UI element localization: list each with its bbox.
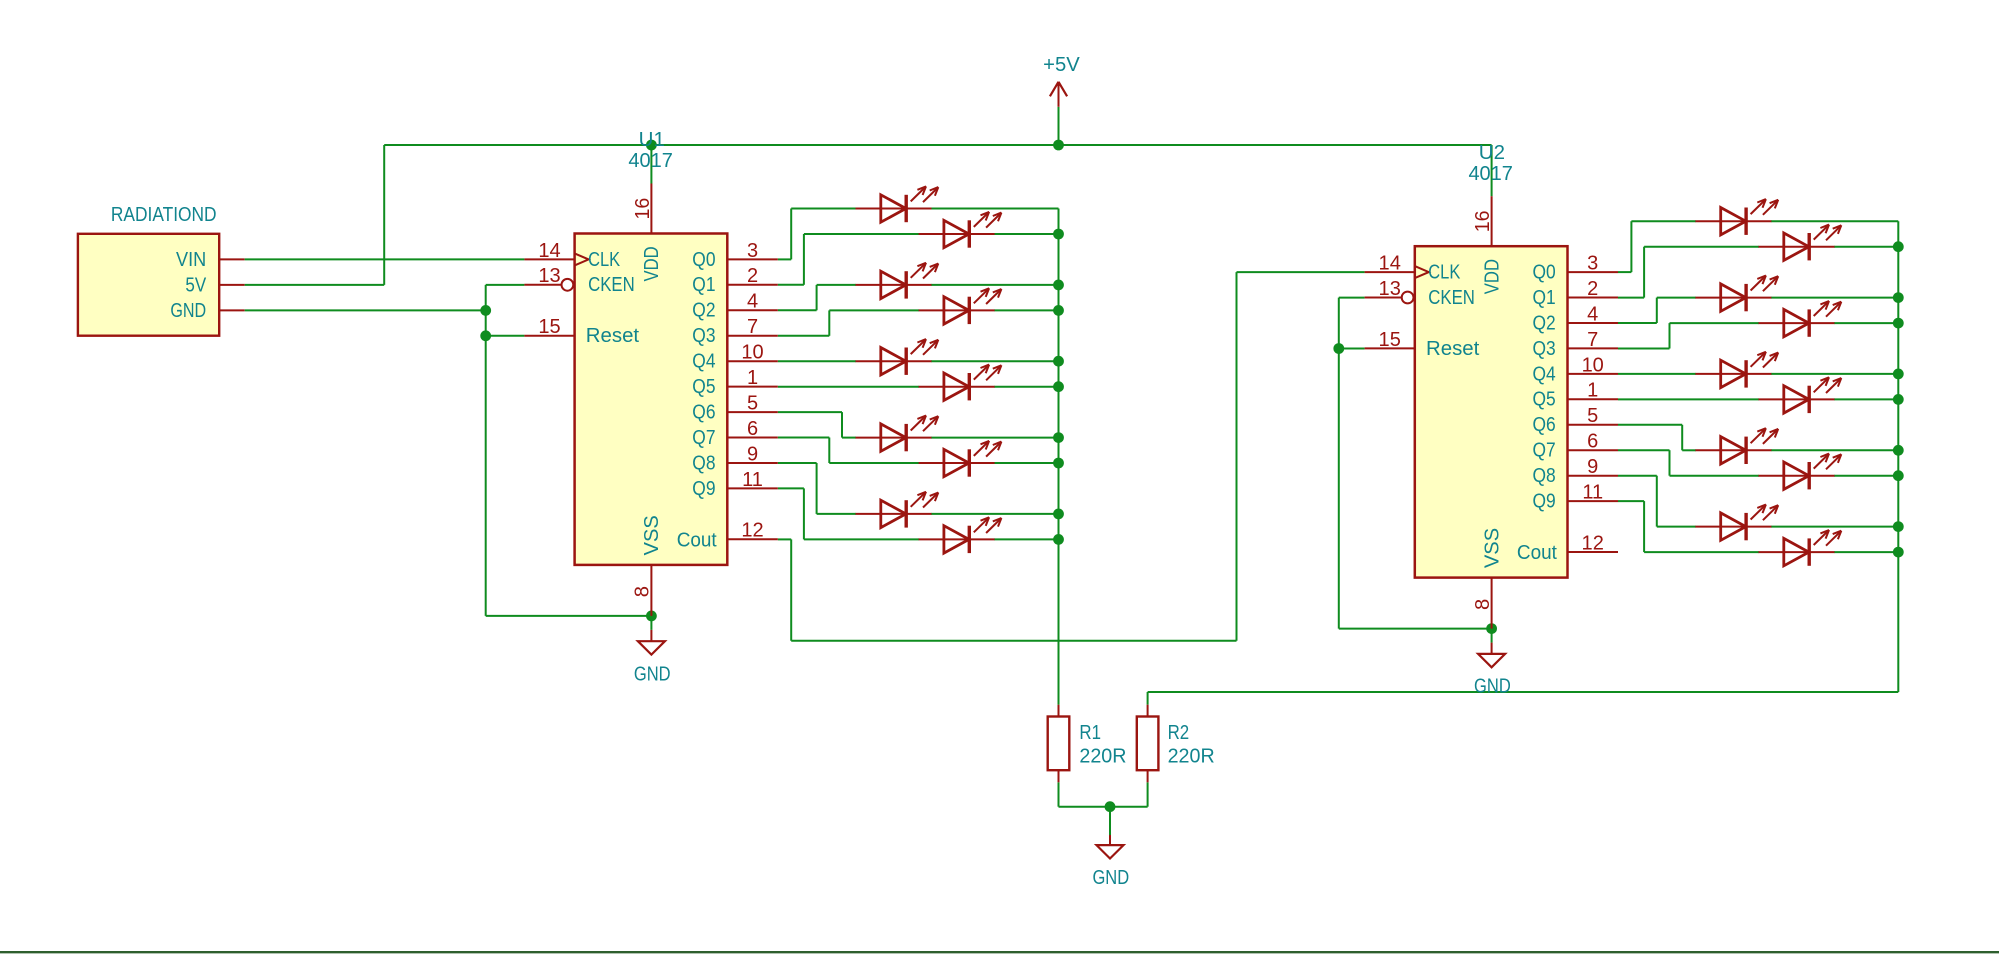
svg-text:U1: U1	[639, 129, 665, 151]
U1 pin 14 CLK	[524, 240, 620, 271]
svg-text:RADIATIOND: RADIATIOND	[111, 204, 217, 226]
wire	[1618, 348, 1670, 350]
wire	[1834, 246, 1898, 248]
svg-text:220R: 220R	[1168, 745, 1215, 767]
wire	[994, 309, 1058, 311]
junction	[1053, 458, 1064, 469]
junction	[1893, 394, 1904, 405]
wire	[931, 513, 1059, 515]
svg-text:5: 5	[747, 393, 758, 415]
wire	[1656, 298, 1658, 323]
svg-text:Q8: Q8	[692, 452, 715, 474]
wire	[790, 209, 792, 260]
U2 pin 3 Q0	[1533, 253, 1619, 284]
U2 pin 5 Q6	[1533, 405, 1619, 436]
LED	[856, 263, 939, 299]
junction	[1893, 547, 1904, 558]
wire	[1834, 475, 1898, 477]
wire	[1236, 272, 1238, 641]
svg-text:Q6: Q6	[692, 402, 715, 424]
svg-text:Q1: Q1	[692, 274, 715, 296]
svg-text:Q6: Q6	[1533, 414, 1556, 436]
wire	[803, 234, 805, 285]
U1 pin 1 Q5	[692, 367, 778, 398]
svg-text:Cout: Cout	[1517, 542, 1557, 564]
svg-text:Reset: Reset	[586, 325, 640, 347]
svg-text:VSS: VSS	[641, 515, 663, 555]
wire	[1681, 425, 1683, 451]
junction	[1053, 432, 1064, 443]
wire	[828, 310, 830, 335]
wire	[1657, 526, 1696, 528]
svg-text:Q7: Q7	[1533, 440, 1556, 462]
svg-text:VDD: VDD	[1481, 259, 1503, 294]
svg-text:3: 3	[747, 240, 758, 262]
svg-text:CKEN: CKEN	[1428, 287, 1475, 309]
wire	[816, 463, 818, 514]
wire	[485, 285, 487, 616]
U1 reference	[628, 129, 673, 172]
U1 pin 16 VDD	[632, 184, 663, 282]
LED	[1695, 276, 1778, 312]
wire	[931, 360, 1059, 362]
wire	[1491, 145, 1493, 196]
IC U1 4017 body	[575, 234, 728, 565]
svg-text:VDD: VDD	[641, 246, 663, 281]
svg-text:Q9: Q9	[692, 478, 715, 500]
svg-text:Q3: Q3	[1533, 338, 1556, 360]
wire	[778, 309, 817, 311]
U1 pin 6 Q7	[692, 418, 778, 449]
wire	[791, 640, 1236, 642]
U1 pin 9 Q8	[692, 443, 778, 474]
wire	[486, 615, 652, 617]
svg-text:CLK: CLK	[1428, 262, 1461, 284]
svg-text:VSS: VSS	[1481, 528, 1503, 568]
wire	[1618, 373, 1696, 375]
wire	[1631, 220, 1696, 222]
wire	[778, 462, 817, 464]
svg-text:15: 15	[1379, 329, 1401, 351]
svg-text:5V: 5V	[185, 274, 206, 296]
svg-text:14: 14	[1379, 253, 1401, 275]
junction	[480, 330, 491, 341]
svg-text:220R: 220R	[1079, 745, 1126, 767]
resistor R1	[1048, 705, 1127, 783]
svg-text:7: 7	[1587, 329, 1598, 351]
svg-text:Q8: Q8	[1533, 465, 1556, 487]
wire	[931, 437, 1059, 439]
svg-text:16: 16	[1472, 210, 1494, 232]
wire	[994, 386, 1058, 388]
LED	[919, 212, 1002, 248]
svg-text:3: 3	[1587, 253, 1598, 275]
U2 pin 11 Q9	[1533, 482, 1619, 513]
U2 pin 13 CKEN	[1365, 278, 1475, 309]
U2 pin 6 Q7	[1533, 431, 1619, 462]
svg-text:Q0: Q0	[692, 249, 715, 271]
svg-text:GND: GND	[1474, 675, 1511, 697]
wire	[778, 386, 919, 388]
junction	[1893, 369, 1904, 380]
U1 pin 8 VSS	[632, 515, 664, 616]
junction	[1893, 318, 1904, 329]
svg-text:Q4: Q4	[692, 351, 715, 373]
junction	[1893, 521, 1904, 532]
junction	[646, 611, 657, 622]
junction	[1486, 623, 1497, 634]
LED	[919, 365, 1002, 401]
wire	[1618, 449, 1670, 451]
wire	[994, 233, 1058, 235]
wire	[1109, 807, 1111, 835]
svg-text:Q1: Q1	[1533, 287, 1556, 309]
junction	[1053, 534, 1064, 545]
LED	[1759, 301, 1842, 337]
svg-text:Reset: Reset	[1426, 338, 1480, 360]
wire	[829, 462, 919, 464]
RADIATIOND pin 5V	[185, 274, 244, 296]
wire	[829, 309, 919, 311]
U2 pin 7 Q3	[1533, 329, 1619, 360]
wire	[994, 462, 1058, 464]
LED	[856, 186, 939, 222]
wire	[1630, 221, 1632, 272]
junction	[1333, 343, 1344, 354]
wire LED rail U2	[1897, 221, 1899, 692]
svg-text:Q7: Q7	[692, 427, 715, 449]
svg-text:GND: GND	[1092, 867, 1129, 889]
wire	[1237, 271, 1365, 273]
svg-text:Q9: Q9	[1533, 491, 1556, 513]
LED	[1695, 428, 1778, 464]
ground	[1092, 807, 1129, 889]
U2 pin 4 Q2	[1533, 303, 1619, 334]
wire	[1834, 322, 1898, 324]
svg-text:8: 8	[1472, 599, 1494, 610]
U2 reference	[1468, 142, 1513, 185]
wire	[778, 335, 830, 337]
sheet border bottom edge	[0, 951, 1999, 953]
U1 pin 11 Q9	[692, 469, 778, 500]
wire	[1338, 298, 1340, 629]
LED	[1695, 505, 1778, 541]
wire	[1058, 107, 1060, 145]
U1 pin 13 CKEN	[524, 265, 634, 296]
svg-text:10: 10	[741, 342, 763, 364]
svg-text:10: 10	[1582, 354, 1604, 376]
wire	[245, 284, 385, 286]
junction	[1893, 445, 1904, 456]
junction	[480, 305, 491, 316]
svg-text:13: 13	[538, 265, 560, 287]
svg-text:Q2: Q2	[692, 300, 715, 322]
svg-text:5: 5	[1587, 405, 1598, 427]
junction	[1893, 470, 1904, 481]
wire	[1657, 297, 1696, 299]
svg-text:R2: R2	[1168, 722, 1190, 744]
wire	[1771, 449, 1898, 451]
wire	[1618, 322, 1657, 324]
wire	[803, 488, 805, 539]
wire	[817, 513, 856, 515]
wire	[1618, 500, 1644, 502]
module RADIATIOND body	[78, 204, 219, 336]
wire	[1670, 322, 1760, 324]
svg-text:Q5: Q5	[1533, 389, 1556, 411]
junction	[646, 140, 657, 151]
svg-text:2: 2	[1587, 278, 1598, 300]
U2 pin 1 Q5	[1533, 380, 1619, 411]
junction	[1053, 280, 1064, 291]
wire	[994, 538, 1058, 540]
wire	[842, 437, 856, 439]
wire	[1771, 220, 1898, 222]
U2 pin 12 Cout	[1517, 532, 1618, 564]
wire	[1058, 782, 1060, 806]
wire	[778, 360, 856, 362]
U2 pin 8 VSS	[1472, 528, 1504, 629]
U2 pin 9 Q8	[1533, 456, 1619, 487]
wire LED rail U1	[1058, 209, 1060, 705]
wire	[1771, 297, 1898, 299]
wire	[1771, 526, 1898, 528]
svg-text:12: 12	[741, 520, 763, 542]
wire	[1339, 348, 1365, 350]
RADIATIOND pin GND	[170, 300, 244, 322]
svg-text:GND: GND	[634, 664, 671, 686]
wire	[1771, 373, 1898, 375]
wire	[804, 233, 919, 235]
svg-text:R1: R1	[1079, 722, 1101, 744]
resistor R2	[1137, 705, 1215, 783]
U1 pin 2 Q1	[692, 265, 778, 296]
wire	[828, 438, 830, 464]
wire	[778, 538, 791, 540]
U2 pin 16 VDD	[1472, 196, 1503, 294]
wire	[1148, 691, 1899, 693]
wire	[1644, 551, 1759, 553]
svg-text:4017: 4017	[628, 150, 673, 172]
junction	[1893, 292, 1904, 303]
svg-text:4: 4	[1587, 303, 1598, 325]
wire	[791, 208, 856, 210]
svg-text:16: 16	[632, 198, 654, 220]
wire	[486, 335, 525, 337]
junction	[1053, 140, 1064, 151]
wire	[778, 411, 842, 413]
wire	[1669, 450, 1671, 476]
wire	[1643, 247, 1645, 298]
wire	[804, 538, 919, 540]
svg-text:11: 11	[742, 469, 763, 491]
svg-text:CLK: CLK	[588, 249, 621, 271]
wire	[778, 487, 804, 489]
svg-text:+5V: +5V	[1043, 54, 1080, 76]
wire	[778, 258, 791, 260]
svg-text:9: 9	[747, 443, 758, 465]
wire	[817, 284, 856, 286]
svg-text:Q4: Q4	[1533, 363, 1556, 385]
junction	[1053, 509, 1064, 520]
svg-text:2: 2	[747, 265, 758, 287]
U2 pin 14 CLK	[1365, 253, 1461, 284]
U2 pin 2 Q1	[1533, 278, 1619, 309]
svg-text:1: 1	[1587, 380, 1598, 402]
svg-text:6: 6	[747, 418, 758, 440]
svg-text:1: 1	[747, 367, 758, 389]
wire	[1339, 297, 1365, 299]
junction	[1053, 305, 1064, 316]
LED	[919, 441, 1002, 477]
power symbol +5V	[1043, 54, 1080, 107]
wire	[1618, 297, 1644, 299]
LED	[1759, 225, 1842, 261]
LED	[1695, 199, 1778, 235]
wire	[1618, 475, 1657, 477]
U1 pin 10 Q4	[692, 342, 778, 373]
LED	[856, 339, 939, 375]
wire	[486, 284, 525, 286]
wire	[1618, 424, 1682, 426]
svg-text:13: 13	[1379, 278, 1401, 300]
U1 pin 15 Reset	[524, 316, 639, 347]
U2 pin 15 Reset	[1365, 329, 1480, 360]
wire	[816, 285, 818, 310]
junction	[1053, 229, 1064, 240]
svg-text:Q0: Q0	[1533, 262, 1556, 284]
svg-text:GND: GND	[170, 300, 206, 322]
svg-text:VIN: VIN	[176, 249, 206, 271]
wire	[1147, 782, 1149, 806]
wire	[245, 258, 525, 260]
svg-text:Q2: Q2	[1533, 312, 1556, 334]
svg-text:8: 8	[632, 586, 654, 597]
ground	[1474, 629, 1511, 698]
svg-text:Q5: Q5	[692, 376, 715, 398]
junction	[1053, 381, 1064, 392]
U1 pin 12 Cout	[677, 520, 778, 552]
wire	[1656, 476, 1658, 527]
wire	[1059, 806, 1148, 808]
svg-text:4017: 4017	[1468, 163, 1513, 185]
LED	[919, 288, 1002, 324]
U1 pin 7 Q3	[692, 316, 778, 347]
wire	[1643, 501, 1645, 552]
svg-text:6: 6	[1587, 431, 1598, 453]
svg-text:4: 4	[747, 291, 758, 313]
wire	[1147, 692, 1149, 705]
svg-text:Cout: Cout	[677, 529, 717, 551]
junction	[1893, 241, 1904, 252]
LED	[856, 416, 939, 452]
ground	[634, 616, 671, 686]
svg-text:15: 15	[538, 316, 560, 338]
wire	[1834, 398, 1898, 400]
LED	[856, 492, 939, 528]
svg-text:Q3: Q3	[692, 325, 715, 347]
LED	[919, 517, 1002, 553]
svg-text:CKEN: CKEN	[588, 274, 635, 296]
LED	[1759, 377, 1842, 413]
U1 pin 5 Q6	[692, 393, 778, 424]
U2 pin 10 Q4	[1533, 354, 1619, 385]
svg-text:14: 14	[538, 240, 560, 262]
LED	[1759, 454, 1842, 490]
junction	[1053, 356, 1064, 367]
wire	[778, 437, 830, 439]
wire	[245, 309, 486, 311]
wire	[1339, 628, 1492, 630]
LED	[1759, 530, 1842, 566]
LED	[1695, 352, 1778, 388]
U1 pin 4 Q2	[692, 291, 778, 322]
wire	[931, 208, 1059, 210]
wire	[790, 539, 792, 640]
svg-text:12: 12	[1582, 532, 1604, 554]
IC U2 4017 body	[1415, 246, 1568, 577]
U1 pin 3 Q0	[692, 240, 778, 271]
RADIATIOND pin VIN	[176, 249, 245, 271]
svg-text:9: 9	[1587, 456, 1598, 478]
wire	[1618, 398, 1759, 400]
wire	[1644, 246, 1759, 248]
svg-text:7: 7	[747, 316, 758, 338]
wire	[841, 412, 843, 438]
junction	[1105, 801, 1116, 812]
wire	[1670, 475, 1760, 477]
wire	[1618, 271, 1631, 273]
wire	[1669, 323, 1671, 348]
wire	[650, 145, 652, 184]
wire	[1834, 551, 1898, 553]
wire	[778, 284, 804, 286]
svg-text:U2: U2	[1479, 142, 1505, 164]
wire	[384, 144, 1491, 146]
wire	[1682, 449, 1696, 451]
wire	[931, 284, 1059, 286]
wire	[383, 145, 385, 285]
svg-text:11: 11	[1582, 482, 1603, 504]
